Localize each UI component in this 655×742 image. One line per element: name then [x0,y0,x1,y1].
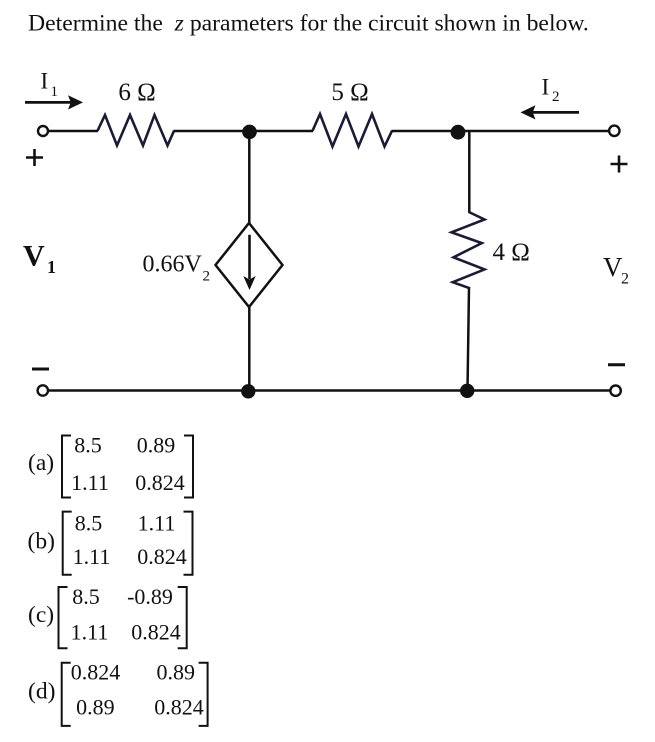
svg-text:0.66V: 0.66V [143,252,203,278]
svg-text:0.824: 0.824 [71,659,121,684]
svg-text:1.11: 1.11 [71,619,109,644]
svg-text:0.824: 0.824 [154,695,204,720]
svg-text:1.11: 1.11 [138,511,176,536]
svg-text:0.824: 0.824 [137,544,187,569]
svg-text:0.89: 0.89 [76,695,115,720]
svg-text:2: 2 [552,89,560,105]
svg-text:5 Ω: 5 Ω [331,79,368,106]
svg-text:-0.89: -0.89 [127,584,173,609]
svg-text:1: 1 [51,84,59,100]
svg-text:2: 2 [203,269,211,285]
svg-text:(b): (b) [28,529,55,555]
svg-text:(d): (d) [28,679,55,705]
svg-text:I: I [41,69,49,94]
svg-text:0.824: 0.824 [135,470,185,495]
svg-text:0.89: 0.89 [156,659,195,684]
svg-text:Determine the z parameters fo: Determine the z parameters for the circu… [28,11,589,37]
svg-text:0.824: 0.824 [131,619,181,644]
svg-text:8.5: 8.5 [74,433,102,458]
svg-text:1.11: 1.11 [71,470,109,495]
svg-text:4 Ω: 4 Ω [493,239,530,266]
svg-text:I: I [542,75,550,100]
svg-text:1: 1 [47,257,56,277]
svg-text:2: 2 [621,271,629,288]
svg-text:1.11: 1.11 [73,544,111,569]
svg-text:8.5: 8.5 [75,511,103,536]
svg-text:(c): (c) [28,602,54,628]
svg-text:V: V [23,239,45,272]
svg-text:6 Ω: 6 Ω [118,79,155,106]
svg-text:0.89: 0.89 [137,433,176,458]
svg-text:V: V [603,252,623,282]
svg-text:8.5: 8.5 [72,584,100,609]
svg-text:(a): (a) [28,450,54,476]
